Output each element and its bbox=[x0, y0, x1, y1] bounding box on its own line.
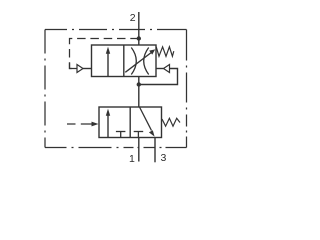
V2 section divider bbox=[129, 107, 131, 138]
V2 pilot line (dashed arrow, left) bbox=[67, 123, 76, 125]
pilot line (dashed) from node A to left pilot triangle bbox=[70, 39, 139, 69]
V1 throttle right arc bbox=[144, 48, 149, 75]
port 3 line bbox=[154, 138, 156, 163]
pilot wire loop: triangle to node B bbox=[139, 69, 178, 85]
svg-text:3: 3 bbox=[161, 152, 167, 164]
V1 left section flow arrow bbox=[107, 51, 109, 77]
wire: V1 right side to pilot triangle bbox=[156, 68, 164, 70]
port 1 line bbox=[138, 138, 140, 162]
enclosure boundary left edge (dash-dot) bbox=[44, 30, 46, 148]
V1 adjustability arrow (diagonal) bbox=[125, 52, 152, 72]
svg-text:1: 1 bbox=[129, 153, 135, 165]
node B junction dot bbox=[137, 82, 141, 86]
V2 left section blocked port T bbox=[116, 131, 126, 133]
enclosure boundary bottom edge (dash-dot) bbox=[45, 147, 187, 149]
svg-text:2: 2 bbox=[130, 12, 136, 24]
node A junction dot (pilot tap on port 2 line) bbox=[137, 36, 141, 40]
wire: pilot line corner to triangle bbox=[70, 63, 78, 69]
V2 left section flow arrow bbox=[107, 113, 109, 138]
V2 right section blocked port T bbox=[134, 131, 144, 133]
left pilot triangle bbox=[77, 65, 83, 73]
V1 spring (right top) bbox=[156, 47, 174, 57]
flow control valve V1 body bbox=[92, 45, 157, 77]
wire: left triangle to valve body bbox=[83, 68, 92, 70]
enclosure boundary right edge (dash-dot) bbox=[186, 30, 188, 148]
wire: V1 outlet down to valve V2 bbox=[138, 77, 140, 108]
port 2 line bbox=[138, 12, 140, 45]
V1 throttle left arc bbox=[131, 48, 136, 75]
V1 section divider bbox=[123, 45, 125, 77]
enclosure boundary top edge (dash-dot) bbox=[45, 29, 187, 31]
right pilot triangle bbox=[164, 65, 170, 73]
V2 right section diagonal flow path with arrow bbox=[140, 107, 152, 131]
directional valve V2 body bbox=[99, 107, 162, 138]
V2 spring (right) bbox=[162, 118, 180, 126]
